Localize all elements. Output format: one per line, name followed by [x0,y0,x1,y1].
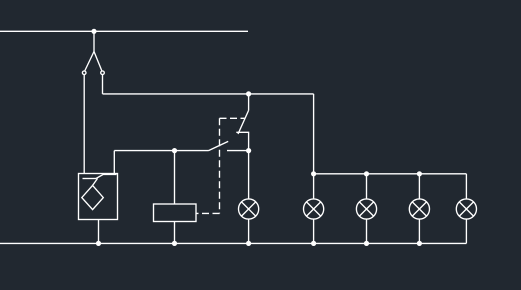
wire right branch drop [313,94,315,174]
contact K1-1 lower terminal bar [236,132,248,150]
wire left drop to sensor box [83,75,85,174]
node junction lamp rail at EL3 [364,171,369,176]
sensor box B1 internal blade [96,175,117,179]
contact K1-2 fixed terminal wire [227,150,249,152]
node junction on top rail [91,29,96,34]
node junction lamp rail at EL4 [417,171,422,176]
wire coil top terminal [174,151,176,204]
switch S1 pole wire [93,31,95,51]
mechanical linkage dashed vertical [219,118,221,213]
wire sensor box bottom terminal [98,220,100,244]
switch S1 left contact circle [82,71,86,75]
contact K1-1 (NC, break) upper terminal wire [248,94,250,111]
switch S1 right contact circle [101,71,105,75]
lamp EL4 [409,199,429,219]
relay coil K1 [154,204,197,222]
switch S1 right blade [94,52,102,72]
mechanical linkage dashed horizontal to NC contact [220,117,245,119]
lamp EL5 bottom wire [465,219,467,243]
lamp EL1 [239,199,259,219]
lamp EL4 bottom wire [418,219,420,243]
lamp EL3 top wire [366,174,368,199]
sensor box B1 internal left lead [83,178,97,180]
lamp EL2 top wire [313,174,315,199]
node junction bus at EL4 [417,241,422,246]
node junction bus at sensor box [96,241,101,246]
lamp EL1 bottom wire [248,219,250,243]
sensor box B1 diamond element [82,185,104,209]
lamp EL2 bottom wire [313,219,315,243]
lamp EL5 top wire [465,174,467,199]
node junction bus at coil [172,241,177,246]
wire coil bottom terminal [174,222,176,244]
wire sensor box right terminal riser [113,151,115,174]
wire N neutral bottom bus [0,242,466,244]
lamp EL3 [356,199,376,219]
lamp EL5 [456,199,476,219]
node A junction [246,148,251,153]
wire coil rail [114,150,208,152]
lamp EL4 top wire [418,174,420,199]
contact K1-1 blade [238,110,249,134]
sensor box B1 internal link to diamond [93,179,98,186]
lamp EL3 bottom wire [366,219,368,243]
node junction coil tap [172,148,177,153]
wire right drop to rail 2 [102,75,104,94]
contact K1-2 (NO, make) blade [209,141,229,150]
node junction rail2 above NC contact [246,91,251,96]
mechanical linkage dashed horizontal to coil [196,212,220,214]
node junction bus at EL1 [246,241,251,246]
lamp EL1 top wire [248,151,250,199]
wire lamp rail [314,173,467,175]
wire L phase top rail [0,30,248,32]
switch S1 left blade [85,52,94,72]
node junction lamp rail at EL2 [311,171,316,176]
sensor box B1 outline [79,174,118,220]
lamp EL2 [304,199,324,219]
wire rail 2 [103,93,314,95]
node junction bus at EL3 [364,241,369,246]
node junction bus at EL2 [311,241,316,246]
